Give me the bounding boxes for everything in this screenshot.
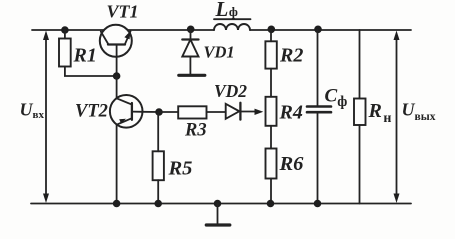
junction: R6 bottom on rail	[267, 200, 275, 208]
wire: VD2 cathode to R4 wiper arrow	[240, 109, 263, 115]
wire: R5 bottom to rail	[157, 180, 159, 203]
svg-text:R5: R5	[168, 158, 193, 180]
wire: VT2 base to R3 node	[143, 111, 159, 113]
wire: rail to load resistor	[359, 30, 361, 99]
svg-text:Cф: Cф	[325, 86, 348, 111]
svg-text:Uвх: Uвх	[20, 100, 45, 122]
wire: load resistor to bottom rail	[359, 125, 361, 204]
junction: VD1 / L-filter on top rail	[187, 26, 195, 34]
resistor R1	[59, 39, 71, 67]
wire: R3 to VD2 anode	[207, 111, 226, 113]
junction: L-filter / R2 on top rail	[268, 26, 276, 34]
junction: R1 top on rail	[61, 26, 69, 34]
resistor Rn (load)	[354, 99, 366, 126]
resistor R5	[153, 151, 164, 180]
wire: R1 bottom to VT1 base node	[65, 67, 117, 77]
ground: common ground symbol	[206, 204, 230, 226]
resistor R6	[266, 149, 277, 179]
node: Uvx voltage arrow line (input)	[43, 31, 49, 204]
diode VD1 (flyback)	[182, 30, 198, 74]
svg-text:R4: R4	[279, 102, 303, 124]
node: Uvyx voltage arrow line (output)	[394, 31, 400, 204]
transistor VT1 (NPN pass transistor)	[100, 25, 132, 57]
junction: VT2 base / R3 / R5 node	[155, 108, 163, 116]
inductor L-filter (core line)	[214, 18, 251, 20]
svg-text:VT2: VT2	[75, 102, 108, 122]
svg-text:R3: R3	[184, 121, 207, 141]
svg-text:VT1: VT1	[107, 2, 139, 22]
svg-text:R2: R2	[279, 45, 303, 67]
junction: C-filter bottom on rail	[314, 200, 322, 208]
wire: node down to R5	[157, 112, 159, 151]
junction: ground tap on bottom rail	[214, 200, 222, 208]
wire: rail to C-filter	[317, 30, 319, 105]
resistor R2	[265, 41, 276, 68]
wire: VT1 base lead down	[116, 45, 118, 77]
wire: rail to R1	[64, 30, 66, 39]
junction: VT1 base / R1 / VT2 collector	[113, 72, 121, 80]
svg-text:Uвых: Uвых	[402, 100, 436, 124]
wire: C-filter to bottom rail	[317, 114, 319, 204]
ground: VD1 anode ground bar	[179, 74, 205, 77]
junction: R5 bottom on rail	[154, 200, 162, 208]
wire: R2 to R4	[270, 69, 272, 97]
wire: node down to VT2 collector	[116, 76, 118, 98]
diode VD2	[226, 103, 241, 120]
svg-text:VD1: VD1	[204, 43, 235, 62]
svg-text:R1: R1	[73, 45, 97, 67]
resistor R3	[178, 106, 206, 118]
svg-text:VD2: VD2	[214, 81, 247, 101]
transistor VT2 (PNP amplifier)	[110, 95, 143, 128]
wire: bottom common rail	[31, 203, 411, 205]
capacitor C-filter	[307, 107, 331, 113]
wire: rail to R2	[270, 30, 272, 41]
svg-text:Rн: Rн	[368, 100, 392, 126]
wire: top rail, VT1 emitter to L-filter left end	[128, 29, 215, 31]
wire: R6 to bottom rail	[270, 179, 272, 204]
wire: top rail, L-filter right end to output	[250, 29, 411, 31]
junction: C-filter top on rail	[314, 26, 322, 34]
junction: VT2 emitter on bottom rail	[113, 200, 121, 208]
inductor L-filter (winding arcs)	[214, 24, 250, 30]
svg-text:Lф: Lф	[215, 0, 238, 21]
resistor R4 (potentiometer)	[266, 97, 277, 126]
wire: top rail, input side left of VT1	[32, 29, 104, 31]
svg-text:R6: R6	[279, 153, 305, 175]
wire: VT2 emitter down to bottom rail	[116, 125, 118, 204]
wire: node to R3	[159, 111, 178, 113]
wire: R4 to R6	[270, 126, 272, 149]
